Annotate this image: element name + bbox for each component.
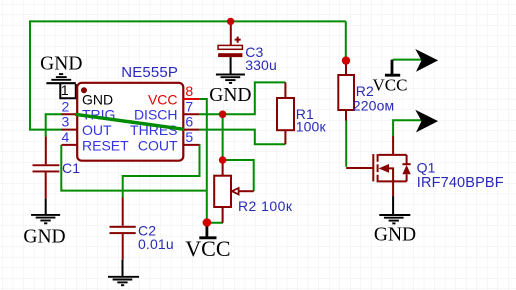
svg-text:GND: GND <box>23 226 65 247</box>
wire: pin4 to VCC node <box>61 145 207 191</box>
capacitor C1 plates <box>33 164 60 172</box>
svg-text:R2 100к: R2 100к <box>238 198 293 214</box>
junction dot VCC node <box>203 218 212 227</box>
resistor R1 leads <box>284 82 286 144</box>
pin stubs right (7,6,5) <box>183 114 199 145</box>
svg-text:7: 7 <box>185 98 193 114</box>
wire: top rail drop to R2 220ohm <box>345 21 347 58</box>
svg-text:6: 6 <box>185 114 193 130</box>
VCC flag right <box>373 60 408 95</box>
wire: pin7 to R1 top <box>199 82 285 114</box>
svg-text:RESET: RESET <box>82 137 129 153</box>
wire: OUT net top rail and left rail to pin3 <box>30 21 346 129</box>
capacitor C1 bottom lead <box>45 172 47 198</box>
pin stubs left (2,3,4) <box>62 114 78 145</box>
wire: pin2 link and C1 drop <box>46 114 62 136</box>
svg-text:8: 8 <box>185 83 193 99</box>
svg-text:GND: GND <box>40 53 82 74</box>
svg-text:VCC: VCC <box>373 75 408 94</box>
ground under Q1 <box>379 197 410 224</box>
VCC flag bottom <box>185 227 230 262</box>
svg-text:COUT: COUT <box>138 137 178 153</box>
capacitor C2 lead <box>122 198 124 226</box>
resistor R2 220om <box>338 75 354 110</box>
arrow port 2 <box>415 110 438 133</box>
svg-text:220ом: 220ом <box>353 97 395 113</box>
ground under C1 <box>31 199 60 224</box>
ground under C2 <box>108 260 139 286</box>
wire: pot top to wiper loop <box>223 160 254 191</box>
IC pin 1 marker dot <box>81 87 87 93</box>
svg-text:330u: 330u <box>245 57 277 73</box>
svg-text:GND: GND <box>374 224 416 245</box>
ground under C3 <box>216 57 245 83</box>
pin1 black box wire to ground <box>60 84 76 98</box>
svg-text:0.01u: 0.01u <box>138 236 174 252</box>
resistor R1 <box>277 98 294 130</box>
Q1 substrate arrow <box>379 164 389 173</box>
svg-text:VCC: VCC <box>185 236 230 261</box>
wire: VCC flag to arrow port 1 <box>393 59 422 61</box>
capacitor C2 bottom lead <box>122 234 124 260</box>
potentiometer wiper arrow <box>232 188 239 194</box>
wire: pin8 down to VCC node <box>199 99 207 223</box>
svg-text:DISCH: DISCH <box>134 107 178 123</box>
capacitor C3 plates <box>218 45 242 57</box>
svg-text:GND: GND <box>209 85 251 106</box>
wire: diagonal pin2 to pin6 <box>75 114 184 129</box>
wire: pin7 node down to pot top <box>222 114 224 160</box>
wire: VCC node to pot bottom <box>207 222 223 224</box>
svg-text:4: 4 <box>62 129 70 145</box>
svg-text:IRF740BPBF: IRF740BPBF <box>417 175 504 191</box>
IC U1 NE555P body <box>77 83 183 161</box>
wire: R2 220ohm bottom to Q1 gate <box>345 120 347 167</box>
capacitor C3 plus sign <box>235 37 241 43</box>
resistor R2 220 leads <box>345 64 347 121</box>
junction dot top rail / C3 <box>227 18 234 25</box>
wire: pin5 to C2 <box>123 145 200 198</box>
pin stub 8 (VCC, red) <box>183 98 199 100</box>
junction dot pin7 node <box>219 111 227 119</box>
svg-text:Q1: Q1 <box>417 160 436 176</box>
svg-text:2: 2 <box>62 98 70 114</box>
capacitor C2 plates <box>110 226 136 234</box>
potentiometer R2 100k leads <box>222 160 224 223</box>
svg-text:OUT: OUT <box>82 122 112 138</box>
svg-text:VCC: VCC <box>148 91 178 107</box>
svg-text:5: 5 <box>185 129 193 145</box>
Q1 body diode <box>402 165 410 174</box>
transistor Q1 MOSFET <box>346 136 406 197</box>
svg-text:1: 1 <box>61 82 69 98</box>
svg-text:C1: C1 <box>62 160 80 176</box>
arrow port 1 <box>415 49 438 72</box>
wire: Q1 drain to arrow port 2 <box>393 120 421 136</box>
svg-text:3: 3 <box>62 114 70 130</box>
junction dot R2 220om top <box>342 56 350 64</box>
capacitor C3 lead <box>230 21 232 45</box>
junction dot pot top <box>219 156 227 164</box>
potentiometer R2 100k body <box>214 176 231 207</box>
svg-text:NE555P: NE555P <box>121 64 178 81</box>
svg-text:GND: GND <box>82 91 113 107</box>
capacitor C1 lead <box>45 136 47 164</box>
wire: pin6 to R1 bottom <box>199 130 285 145</box>
ground top-left (flipped) <box>46 74 75 83</box>
svg-text:100к: 100к <box>296 119 327 135</box>
